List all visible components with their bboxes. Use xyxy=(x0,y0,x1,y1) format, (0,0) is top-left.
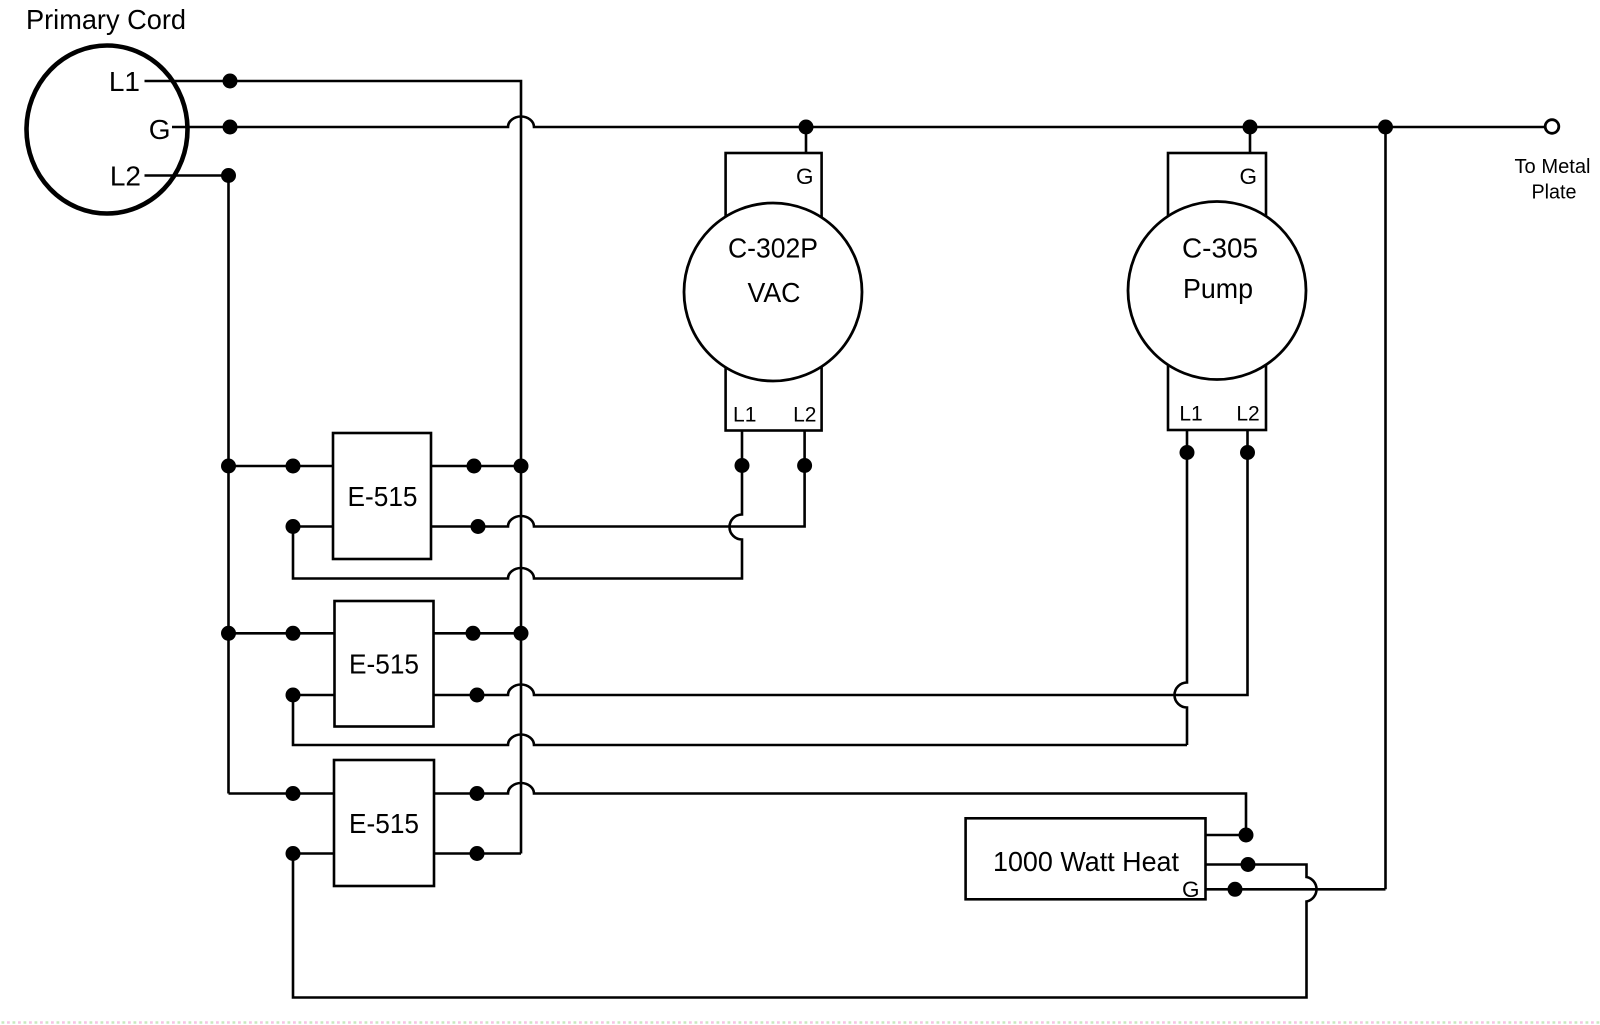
wire VAC L1 to relay1 via lower detour (hops at y=526.5 and x=521) xyxy=(293,431,742,579)
decorative dotted baseline green xyxy=(2,1021,1600,1024)
svg-text:L2: L2 xyxy=(110,161,141,192)
motor C-305 Pump terminal box xyxy=(1168,153,1266,430)
svg-text:L1: L1 xyxy=(733,403,756,426)
svg-text:C-305: C-305 xyxy=(1182,233,1258,264)
node relay2 top-right xyxy=(466,626,481,641)
wire relay3 top-left xyxy=(229,792,335,795)
wire G main (hop over x=521) xyxy=(172,117,1544,127)
relay E-515 no.2 box xyxy=(335,601,434,727)
node Pump L2 xyxy=(1240,445,1255,460)
node relay1 top-right xyxy=(467,459,482,474)
svg-text:To Metal: To Metal xyxy=(1515,156,1591,178)
svg-text:1000 Watt Heat: 1000 Watt Heat xyxy=(993,846,1179,877)
wire relay1 top-right xyxy=(431,465,521,468)
motor C-302P VAC circle xyxy=(684,203,862,381)
relay E-515 no.3 box xyxy=(334,760,434,886)
wire L1 feed and bus (vertical x=521) xyxy=(145,81,522,854)
wire Pump L2 vertical stub xyxy=(1246,430,1249,453)
node L1 xyxy=(223,74,238,89)
node relay1 top-left xyxy=(286,459,301,474)
wire relay1 row2-right to VAC L2 (hop at x=521) xyxy=(431,466,805,527)
node heat pin2 xyxy=(1241,857,1256,872)
node relay1 row2-left xyxy=(286,519,301,534)
node relay3 top-left xyxy=(286,786,301,801)
node Pump L1 xyxy=(1180,445,1195,460)
primary cord circle xyxy=(27,46,188,214)
heater 1000 Watt Heat box xyxy=(966,818,1206,899)
svg-text:G: G xyxy=(1239,164,1257,189)
wire relay2 row2-left xyxy=(293,694,335,697)
node L2 xyxy=(221,168,236,183)
wire relay3 row2-left xyxy=(293,852,334,855)
node relay2 row2-left xyxy=(286,688,301,703)
svg-text:G: G xyxy=(149,114,171,145)
svg-text:C-302P: C-302P xyxy=(728,233,818,264)
svg-text:L2: L2 xyxy=(793,403,816,426)
wire heat ground vertical xyxy=(1384,127,1387,889)
svg-text:G: G xyxy=(796,164,814,189)
wire relay3 top-right to heat pin1 (hop at x=521) xyxy=(434,783,1246,835)
wire heat pin3 G to ground vertical xyxy=(1206,888,1386,891)
svg-text:E-515: E-515 xyxy=(348,481,418,512)
svg-text:E-515: E-515 xyxy=(349,808,419,839)
wire relay1 top-left xyxy=(229,465,334,468)
wire relay1 row2-left xyxy=(293,525,333,528)
node relay1 row2-right xyxy=(471,519,486,534)
node relay2 bus L1 xyxy=(514,626,529,641)
node relay2 top-left xyxy=(286,626,301,641)
svg-text:E-515: E-515 xyxy=(349,649,419,680)
wire relay2 lower detour to Pump L1 (hop at x=521) xyxy=(293,695,1187,745)
node relay3 top-right xyxy=(470,786,485,801)
node relay3 row2-right xyxy=(470,846,485,861)
wire VAC G stub xyxy=(805,127,808,153)
node heat pin3 G xyxy=(1228,882,1243,897)
relay E-515 no.1 box xyxy=(333,433,431,559)
node VAC L1 xyxy=(735,458,750,473)
wire relay2 row2-right to Pump L2 (hop at x=521) xyxy=(434,453,1248,696)
wire relay2 top-left xyxy=(229,632,335,635)
node relay3 row2-left xyxy=(286,846,301,861)
motor C-305 Pump circle xyxy=(1128,202,1306,380)
wire Pump L1 upper stub xyxy=(1186,430,1189,453)
svg-text:L1: L1 xyxy=(109,66,140,97)
svg-text:L2: L2 xyxy=(1236,403,1259,426)
node relay1 bus L1 xyxy=(514,459,529,474)
svg-text:VAC: VAC xyxy=(748,277,801,308)
wire Pump G stub xyxy=(1249,127,1252,153)
node G to VAC xyxy=(799,120,814,135)
node G to Pump xyxy=(1243,120,1258,135)
decorative dotted baseline pink xyxy=(7,1021,1600,1024)
wire Pump L1 vertical to relay2 detour (hop at y=695) xyxy=(1175,453,1188,746)
terminal to metal plate (open circle) xyxy=(1545,120,1559,134)
motor C-302P VAC terminal box xyxy=(726,153,822,431)
svg-text:Primary Cord: Primary Cord xyxy=(26,4,186,35)
node relay2 row2-right xyxy=(470,688,485,703)
wire relay2 top-right xyxy=(434,632,522,635)
svg-text:G: G xyxy=(1182,877,1200,902)
wire VAC L2 stub xyxy=(803,431,806,466)
node relay2 bus L2 xyxy=(221,626,236,641)
node heat pin1 xyxy=(1239,828,1254,843)
wire relay3 row2-right to L1 bus xyxy=(434,852,521,855)
svg-text:Plate: Plate xyxy=(1532,181,1577,203)
node G to heat ground xyxy=(1378,120,1393,135)
wire relay3 bottom loop to heat pin2 (hop at y=889.3) xyxy=(293,854,1317,998)
node relay1 bus L2 xyxy=(221,459,236,474)
node VAC L2 xyxy=(797,458,812,473)
wire L2 feed and bus (vertical x=228.5) xyxy=(145,176,229,794)
svg-text:Pump: Pump xyxy=(1183,273,1253,304)
svg-text:L1: L1 xyxy=(1179,403,1202,426)
node G xyxy=(223,120,238,135)
